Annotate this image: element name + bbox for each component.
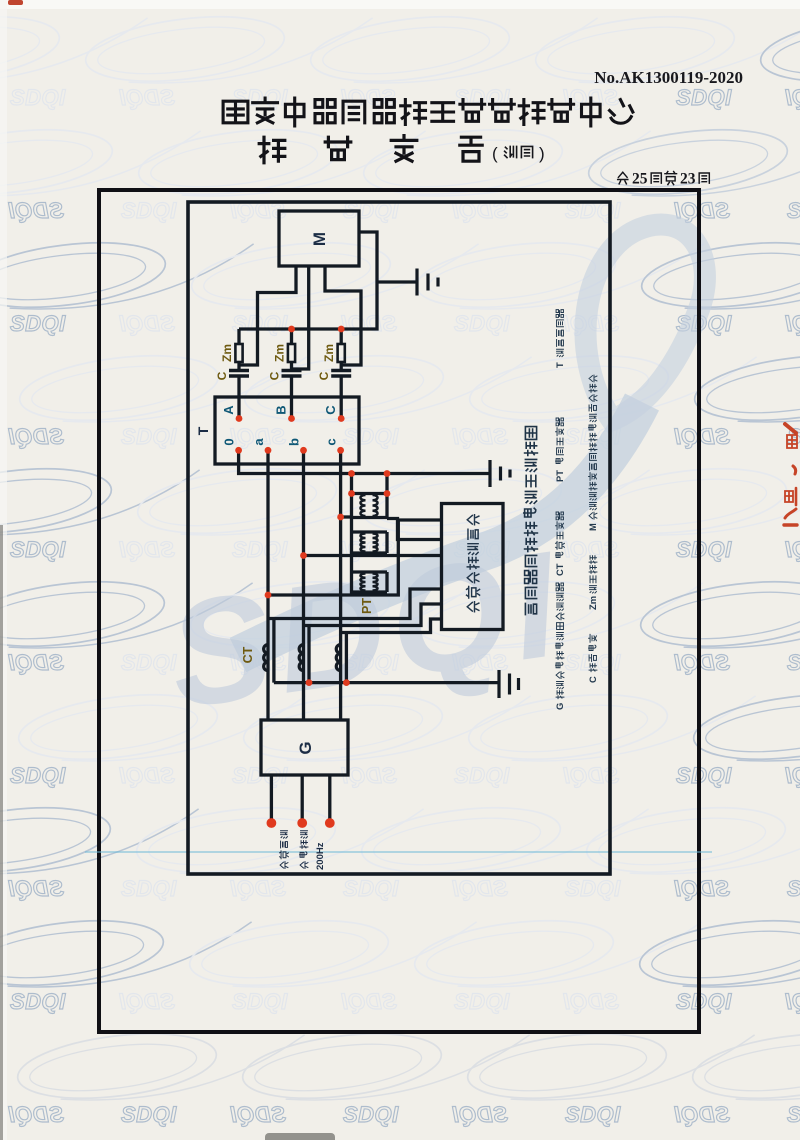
svg-text:Zm: Zm	[220, 344, 234, 362]
svg-text:SDQI: SDQI	[674, 1102, 730, 1127]
svg-text:C: C	[215, 371, 229, 380]
ground near M	[377, 269, 438, 296]
inductor CT b (current transformer coil)	[299, 645, 303, 671]
wire Zm1 to bus	[237, 329, 240, 344]
svg-text:CT: CT	[554, 563, 565, 576]
capacitor C1	[229, 371, 249, 377]
svg-text:25: 25	[632, 171, 648, 188]
transformer PT3 (voltage transformer)	[352, 572, 388, 592]
wire G output 2	[301, 775, 304, 823]
wire PT primary rail to neutral	[350, 474, 353, 597]
label generator description	[280, 862, 288, 869]
svg-text:): )	[539, 144, 545, 163]
svg-text:SDQI: SDQI	[343, 1102, 399, 1127]
wire phase c (T to G)	[339, 450, 342, 720]
svg-text:23: 23	[680, 171, 696, 188]
label AC parameter tester	[467, 602, 479, 612]
wire CT return c	[345, 633, 348, 683]
svg-text:SDQI: SDQI	[785, 537, 800, 562]
svg-text:M: M	[587, 523, 598, 531]
wire terminal A to coupling capacitor C1	[237, 376, 240, 419]
svg-text:Zm: Zm	[587, 596, 598, 610]
ground CT return	[499, 670, 519, 698]
wire M input 1 (from C1/Zm1 junction)	[239, 266, 296, 365]
wire CT a branch to tester	[268, 589, 442, 619]
wire tap phase a to PT3 / tester	[268, 520, 442, 595]
svg-text:Zm: Zm	[273, 344, 287, 362]
svg-text:SDQI: SDQI	[8, 198, 64, 223]
svg-text:SDQI: SDQI	[8, 424, 64, 449]
wire Zm2 to bus	[290, 329, 293, 344]
svg-text:SDQI: SDQI	[230, 1102, 286, 1127]
wire Zm3 to bus	[340, 329, 343, 344]
ground neutral	[490, 460, 510, 487]
wire phase b (T to G)	[302, 450, 305, 720]
wire CT b branch to tester	[304, 604, 442, 626]
wire phase a (T to G)	[266, 450, 269, 720]
junction dots	[235, 326, 390, 828]
wire C2 to Zm2	[290, 362, 293, 371]
svg-text:SDQI: SDQI	[10, 763, 66, 788]
svg-text:SDQI: SDQI	[787, 1102, 800, 1127]
wire PT1 output to tester	[387, 519, 442, 540]
svg-text:SDQI: SDQI	[8, 650, 64, 675]
box AC parameter tester	[442, 504, 504, 630]
transformer PT2 (voltage transformer)	[352, 532, 388, 553]
svg-text:C: C	[323, 405, 338, 415]
svg-text:Zm: Zm	[322, 344, 336, 362]
svg-text:G: G	[296, 741, 315, 754]
svg-text:C: C	[317, 371, 331, 380]
svg-text:b: b	[287, 438, 302, 446]
wire CT return b	[307, 626, 310, 683]
label diagram title	[525, 603, 536, 614]
resistor Zm2 (measuring impedance)	[288, 344, 295, 362]
svg-text:a: a	[251, 438, 266, 446]
wire CT c branch to tester	[341, 619, 442, 633]
svg-text:SDQI: SDQI	[787, 650, 800, 675]
wire C3 to Zm3	[340, 362, 343, 371]
svg-text:SDQI: SDQI	[10, 311, 66, 336]
transformer T (device under test)	[215, 397, 359, 464]
wire G output 3	[328, 775, 331, 823]
wire terminal C to coupling capacitor C3	[340, 376, 343, 419]
wire PT1 secondary rail to neutral	[385, 474, 388, 518]
capacitor C2	[282, 371, 302, 377]
svg-text:G: G	[554, 703, 565, 710]
wire M input 2 (from C2/Zm2 junction)	[292, 266, 309, 369]
svg-text:SDQI: SDQI	[8, 876, 64, 901]
wire tap phase b to PT2 / tester	[304, 554, 442, 557]
resistor Zm3 (measuring impedance)	[338, 344, 345, 362]
generator G box	[261, 720, 348, 775]
svg-text:PT: PT	[554, 470, 565, 482]
svg-text:SDQI: SDQI	[787, 876, 800, 901]
svg-text:B: B	[274, 405, 289, 414]
svg-text:SDQI: SDQI	[10, 989, 66, 1014]
svg-text:SDQI: SDQI	[10, 537, 66, 562]
transformer PT1 (voltage transformer)	[352, 494, 388, 518]
svg-text:SDQI: SDQI	[121, 1102, 177, 1127]
wire G output 1	[270, 775, 273, 823]
wire tap phase c to PT1	[341, 515, 352, 518]
svg-text:SDQI: SDQI	[787, 198, 800, 223]
svg-text:0: 0	[222, 438, 237, 445]
svg-text:SDQI: SDQI	[565, 1102, 621, 1127]
svg-text:SDQI: SDQI	[8, 1102, 64, 1127]
wire ground bus (Zm common)	[239, 232, 377, 329]
svg-text:C: C	[268, 371, 282, 380]
svg-text:(: (	[492, 144, 498, 163]
capacitor C3	[331, 371, 351, 377]
resistor Zm1 (measuring impedance)	[235, 344, 242, 362]
schematic frame	[188, 202, 610, 874]
wire CT common return to ground	[274, 681, 499, 684]
svg-text:A: A	[221, 405, 236, 415]
inductor CT c (current transformer coil)	[336, 645, 340, 671]
svg-text:c: c	[324, 438, 339, 445]
svg-text:SDQI: SDQI	[785, 763, 800, 788]
svg-text:T: T	[554, 362, 565, 368]
svg-text:T: T	[195, 426, 211, 435]
svg-text:CT: CT	[241, 646, 255, 663]
inductor CT a (current transformer coil)	[264, 645, 268, 671]
svg-text:200Hz: 200Hz	[315, 842, 326, 870]
wire CT return a	[272, 619, 275, 683]
wire terminal B to coupling capacitor C2	[290, 376, 293, 419]
svg-text:C: C	[587, 676, 598, 683]
svg-text:PT: PT	[360, 598, 374, 614]
svg-text:SDQI: SDQI	[785, 311, 800, 336]
wire C1 to Zm1	[237, 362, 240, 371]
svg-text:SDQI: SDQI	[452, 1102, 508, 1127]
svg-text:No.AK1300119-2020: No.AK1300119-2020	[594, 68, 743, 87]
op M box (multichannel digital PD analyzer)	[279, 211, 359, 266]
svg-text:M: M	[310, 232, 329, 246]
svg-text:SDQI: SDQI	[785, 989, 800, 1014]
wire neutral 0 to ground	[239, 450, 490, 473]
wire M input 3 (from C3/Zm3 junction)	[325, 266, 361, 365]
